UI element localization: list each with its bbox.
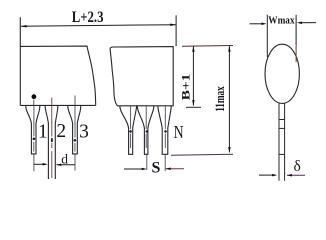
svg-text:L+2.3: L+2.3 bbox=[72, 9, 104, 26]
svg-text:N: N bbox=[174, 122, 184, 142]
side view lead bbox=[279, 103, 285, 181]
top extension line bbox=[182, 45, 233, 48]
lead seating extension line bbox=[171, 153, 233, 156]
body left section outline bbox=[20, 17, 95, 105]
svg-text:1: 1 bbox=[38, 121, 48, 142]
dimension S bbox=[124, 168, 145, 170]
svg-text:d: d bbox=[61, 152, 68, 167]
pin 3 bbox=[68, 105, 81, 153]
body bottom extension line bbox=[186, 106, 201, 108]
pin N bbox=[158, 106, 171, 155]
svg-text:2: 2 bbox=[56, 121, 66, 142]
pin N centerline bbox=[164, 106, 166, 171]
pin 5 centerline bbox=[145, 106, 148, 170]
pin 4 centerline bbox=[130, 106, 132, 148]
svg-text:3: 3 bbox=[79, 121, 89, 142]
pin 1 centerline bbox=[33, 100, 35, 172]
svg-text:B+1: B+1 bbox=[178, 74, 192, 101]
body right section outline bbox=[110, 47, 173, 106]
svg-text:11max: 11max bbox=[213, 86, 227, 112]
pin 2 centerline (red) bbox=[51, 98, 53, 179]
svg-text:δ: δ bbox=[294, 158, 301, 175]
dimension d bbox=[34, 163, 46, 165]
dimension delta bbox=[259, 174, 275, 176]
dimension Wmax bbox=[250, 15, 316, 62]
dimension 11max bbox=[228, 46, 230, 152]
svg-text:S: S bbox=[152, 160, 161, 177]
pin 1 bbox=[26, 105, 40, 153]
pin 2 bbox=[45, 105, 58, 179]
side view body ellipse bbox=[265, 44, 299, 103]
svg-text:Wmax: Wmax bbox=[268, 16, 295, 27]
pin 1 index dot bbox=[32, 94, 37, 99]
pin 4 bbox=[120, 106, 137, 155]
pin 5 bbox=[137, 106, 154, 155]
dimension B+1 bbox=[192, 46, 194, 105]
pin 3 centerline bbox=[74, 96, 76, 171]
dimension L+2.3 bbox=[21, 15, 176, 46]
